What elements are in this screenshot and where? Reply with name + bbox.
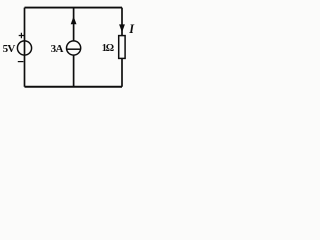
svg-text:5V: 5V (3, 43, 16, 55)
svg-text:1Ω: 1Ω (102, 43, 114, 54)
svg-text:3A: 3A (51, 43, 64, 55)
